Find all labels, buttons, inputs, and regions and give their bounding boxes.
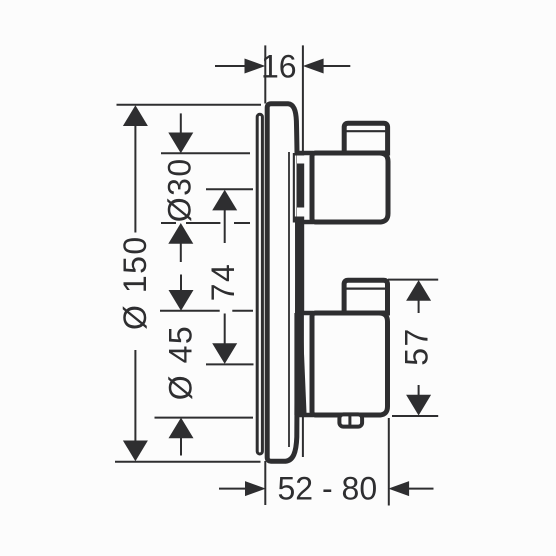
sleeve interior white notch upper-bottom — [297, 208, 310, 217]
dimension 52-80: right arrowhead — [388, 481, 409, 496]
plate inner contour line — [288, 152, 290, 447]
dimension 57: down arrowhead — [406, 395, 431, 416]
plate front slab (front face rim) — [257, 114, 262, 454]
dimension 45: bottom extension line — [155, 417, 254, 419]
tab divider — [348, 413, 351, 429]
dimension 150: line lower segment — [134, 350, 136, 442]
dimension 30: bottom extension line segment a — [161, 222, 176, 224]
wall plane line (right extension of dim 16) — [302, 45, 304, 457]
svg-text:52 - 80: 52 - 80 — [277, 471, 377, 507]
dimension 16: right shaft — [323, 65, 350, 67]
dimension 57: top extension line — [388, 279, 438, 281]
dimension 30: top arrow shaft — [180, 113, 182, 134]
dimension 30: top extension line — [161, 152, 250, 154]
lower handle stem — [344, 280, 387, 313]
dimension 150: top extension line — [117, 104, 262, 106]
dimension 45: bottom arrow shaft — [180, 438, 182, 456]
dimension 74: upper shaft — [224, 209, 226, 243]
dimension 45: top arrow shaft — [180, 275, 182, 292]
svg-text:16: 16 — [261, 48, 297, 84]
dimension 30: bottom arrow shaft — [180, 243, 182, 262]
valve housing dark band behind lower handle — [294, 313, 306, 415]
dimension 74: down arrowhead — [212, 343, 237, 364]
dimension 52-80: left arrowhead — [245, 481, 266, 496]
lower handle sleeve bottom line — [296, 413, 313, 418]
upper stem grip ring line — [344, 130, 387, 132]
dimension 52-80: right shaft — [409, 488, 434, 490]
dimension 30: bottom arrowhead (up) — [168, 223, 193, 244]
dimension 57: up arrowhead — [406, 280, 431, 301]
dimension 57: upper shaft — [418, 300, 420, 313]
dimension 57: bottom extension line — [392, 415, 438, 417]
upper handle sleeve bottom line — [296, 220, 313, 225]
svg-text:74: 74 — [205, 263, 241, 302]
dimension 16: left arrowhead — [245, 59, 266, 74]
dimension 30: bottom extension line segment c — [234, 222, 250, 224]
lower handle body — [312, 313, 388, 415]
dimension 30: top arrowhead (down) — [168, 133, 193, 154]
plate escutcheon (main body, side view) — [267, 104, 298, 461]
dimension 57: lower shaft — [418, 385, 420, 397]
dimension 45: top extension line segment a — [160, 310, 220, 312]
dimension 74: up arrowhead — [212, 190, 237, 211]
extension line: front face of plate (left extension of dim 16) — [264, 45, 266, 103]
white sliver splitting plate edge from valve band (upper) — [295, 156, 297, 217]
lower handle sleeve top line — [296, 311, 313, 316]
dimension 16: left shaft — [215, 65, 245, 67]
svg-text:Ø 150: Ø 150 — [117, 235, 153, 330]
dimension 45: top arrowhead (down) — [169, 290, 194, 311]
upper handle sleeve top line — [296, 151, 313, 156]
dimension 52-80: left shaft — [219, 488, 247, 490]
svg-text:Ø 45: Ø 45 — [163, 325, 199, 400]
dimension 74: top extension line — [206, 188, 253, 190]
valve housing dark band behind upper handle — [293, 153, 304, 223]
dimension 150: line upper segment — [134, 125, 136, 233]
dimension 150: bottom extension line — [115, 461, 261, 463]
upper handle body — [312, 153, 388, 222]
safety stop tab under lower handle — [339, 414, 362, 426]
valve body segment between handles — [299, 224, 304, 311]
dimension 16: right arrowhead — [303, 59, 324, 74]
dimension 45: bottom arrowhead (up) — [169, 418, 194, 439]
dimension 74: lower shaft — [224, 314, 226, 346]
plate rim thin edge between handles — [295, 222, 297, 313]
sleeve interior white notch upper-top — [297, 156, 310, 164]
lower stem grip ring line — [344, 288, 387, 290]
dimension 52-80: right extension line — [388, 418, 390, 506]
dimension 150: up arrowhead — [123, 105, 148, 126]
upper handle stem — [344, 123, 387, 153]
svg-text:57: 57 — [399, 327, 435, 366]
dimension 52-80: left extension line — [264, 461, 266, 505]
dimension 30: bottom extension line segment b — [186, 222, 220, 224]
svg-text:Ø30: Ø30 — [161, 157, 197, 222]
dimension 150: down arrowhead — [123, 441, 148, 462]
dimension 45: top extension line segment b — [232, 310, 253, 312]
dimension 74: bottom extension line — [206, 363, 254, 365]
